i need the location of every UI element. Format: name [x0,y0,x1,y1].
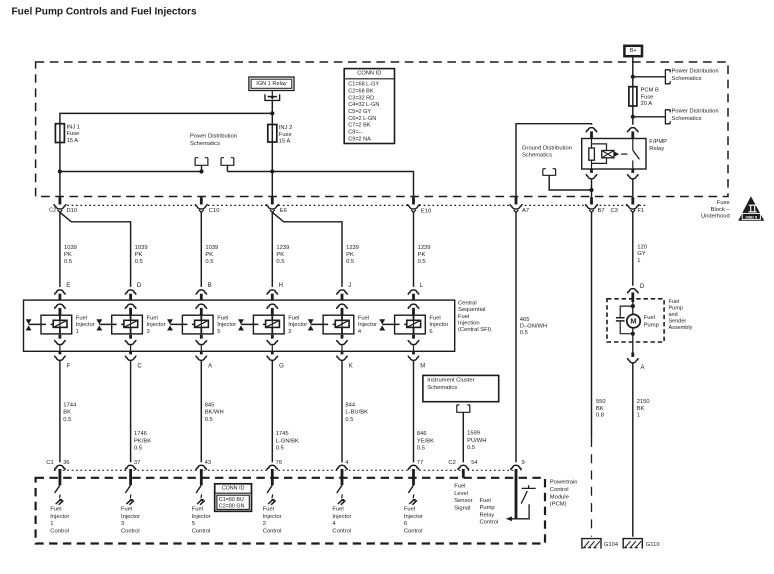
svg-text:Ground Distribution: Ground Distribution [522,145,572,151]
svg-text:76: 76 [276,460,282,466]
svg-text:1039: 1039 [205,245,218,251]
svg-text:BK/WH: BK/WH [205,410,224,416]
connector arc inside SFI box col 2 [268,301,277,310]
svg-text:Fuel: Fuel [192,507,203,513]
svg-text:Pump: Pump [644,322,659,328]
relay coil [591,139,593,170]
svg-text:Injector: Injector [358,322,377,328]
off-page bracket power distribution (lower) [665,110,670,124]
svg-text:Sensor: Sensor [454,498,472,504]
wire C10 down [200,212,202,291]
RFI capacitor branch [620,306,633,334]
svg-text:Fuel: Fuel [263,507,274,513]
injector 6 inlet line [382,323,407,325]
svg-text:Schematics: Schematics [190,141,220,147]
junction [270,111,274,115]
svg-text:A: A [208,363,212,369]
svg-text:1039: 1039 [64,245,77,251]
svg-text:Pump: Pump [669,306,683,312]
svg-text:Injector: Injector [121,514,140,520]
svg-text:L-GN/BK: L-GN/BK [276,438,299,444]
connector arc above injector 3 [126,287,135,296]
svg-text:Fuel: Fuel [480,498,491,504]
connector arc under SFI box col 6 [412,351,415,356]
capacitor plates [616,318,625,321]
wire F1 down to fuel pump [632,212,634,290]
svg-text:37: 37 [134,460,140,466]
node D10 connector [54,201,65,212]
svg-text:1039: 1039 [135,245,148,251]
wire bus left segment [60,171,202,173]
svg-text:0.5: 0.5 [205,259,213,265]
junction [631,75,635,79]
relay switch [632,139,634,151]
svg-text:A7: A7 [522,208,529,214]
svg-text:GY: GY [637,251,646,257]
svg-text:PK: PK [205,252,213,258]
wire A7 down to PCM pin 9 [515,212,517,464]
svg-text:6: 6 [404,521,407,527]
svg-text:F: F [67,363,71,369]
svg-text:1: 1 [50,521,53,527]
svg-text:0.5: 0.5 [276,259,284,265]
node E6 connector [267,201,278,212]
connector arc below injector 1 [59,335,62,341]
svg-text:PK: PK [418,252,426,258]
svg-text:Injector: Injector [429,322,448,328]
svg-text:Schematics: Schematics [427,385,457,391]
CONN ID table (PCM) [215,484,252,512]
svg-text:5: 5 [217,329,220,335]
svg-text:Level: Level [454,491,468,497]
svg-text:C5=2 GY: C5=2 GY [348,109,371,115]
wire injector 1 control down [59,361,61,465]
injector 3 nozzle bowtie [97,320,102,330]
svg-text:F1: F1 [638,208,645,214]
wire IGN1 feed down [271,100,273,142]
PCM connector dotted line [54,469,521,471]
motor M fuel pump [632,327,634,342]
svg-text:(Central SFI): (Central SFI) [458,327,491,333]
svg-text:0.5: 0.5 [63,417,71,423]
connector arc under SFI box col 4 [341,351,344,356]
node B+ [624,46,642,56]
svg-text:Injector: Injector [288,322,307,328]
svg-text:B: B [208,283,212,289]
wire injector 5 control down [200,361,202,465]
fuel injector 5 [182,315,213,334]
wire 550 BK dashed to G104 [591,438,593,537]
svg-text:OBD II: OBD II [745,214,757,219]
wire stub up to power distribution bracket A [201,165,203,171]
svg-text:Injector: Injector [147,322,166,328]
off-page bracket instrument cluster [457,405,470,412]
svg-text:0.5: 0.5 [276,446,284,452]
svg-text:1599: 1599 [467,431,480,437]
svg-text:B7: B7 [598,208,605,214]
connector arc fuel pump A [632,342,634,353]
svg-text:Injector: Injector [76,322,95,328]
CONN ID table (fuse block) [344,69,394,144]
svg-text:Control: Control [550,487,569,493]
svg-text:5: 5 [192,521,195,527]
svg-text:Module: Module [550,494,569,500]
svg-text:Sequential: Sequential [458,307,485,313]
svg-text:0.5: 0.5 [520,330,528,336]
svg-text:Powertrain: Powertrain [550,480,578,486]
injector 2 driver [267,485,272,493]
svg-text:2: 2 [263,521,266,527]
svg-text:1: 1 [637,258,640,264]
junction [199,169,203,173]
wire into pump [632,302,634,315]
wire stub to power distribution (upper) [633,76,665,78]
svg-text:C10: C10 [209,208,220,214]
fuel injector 4 [323,315,354,334]
svg-text:C7=2 BK: C7=2 BK [348,123,370,129]
wire top bus to INJ1 [60,113,272,142]
svg-text:550: 550 [596,399,606,405]
connector arc above injector 6 [409,287,418,296]
svg-text:Control: Control [192,529,211,535]
svg-text:PK: PK [135,252,143,258]
connector arc inside SFI box col 4 [337,301,346,310]
svg-text:C1: C1 [46,460,53,466]
junction [589,188,593,192]
node E10 connector [408,201,419,212]
wire A7 riser loop [516,124,592,198]
svg-text:Injector: Injector [50,514,69,520]
svg-text:1745: 1745 [276,431,289,437]
svg-text:0.5: 0.5 [134,446,142,452]
relay bottom pins [590,169,593,175]
injector 4 nozzle bowtie [308,320,313,330]
injector 3 inlet line [99,323,124,325]
svg-text:20 A: 20 A [641,101,653,107]
connector arc below injector 4 [341,335,344,341]
wire relay switch out to F1 [632,180,634,198]
injector 1 inlet line [29,323,54,325]
svg-text:465: 465 [520,317,530,323]
junction [270,169,274,173]
svg-text:1: 1 [637,413,640,419]
svg-text:PU/WH: PU/WH [467,438,486,444]
OBD II warning triangle [738,196,764,220]
relay coil link bracket [592,144,607,164]
svg-text:0.5: 0.5 [417,446,425,452]
wire stub to power distribution (lower) [633,116,665,118]
connector arc relay left pin top [587,125,596,134]
fuel injector 6 [395,315,426,334]
fuel injector 3 [112,315,143,334]
connector arc above injector 1 [55,287,64,296]
injector 5 driver [196,485,201,493]
svg-text:Schematics: Schematics [672,116,702,122]
svg-text:120: 120 [637,244,647,250]
connector arc above injector 5 [197,287,206,296]
instrument cluster schematics box [423,375,499,401]
connector arc above injector 2 [268,287,277,296]
wire INJ2 fuse down to connector E6 [271,142,273,198]
svg-text:INJ 2: INJ 2 [279,125,293,131]
svg-text:Injector: Injector [332,514,351,520]
svg-text:IGN 1 Relay: IGN 1 Relay [256,81,287,87]
injector 6 nozzle bowtie [380,320,385,330]
svg-text:Fuel: Fuel [147,315,158,321]
svg-text:0.5: 0.5 [64,259,72,265]
svg-text:Fuse: Fuse [717,200,730,206]
svg-text:Fuel: Fuel [669,299,680,305]
svg-text:C2=80 GN: C2=80 GN [219,504,245,510]
wire injector 3 control down [130,361,132,465]
svg-text:3: 3 [121,521,124,527]
svg-text:C8=--: C8=-- [348,130,362,136]
svg-text:BK: BK [596,406,604,412]
node B7 connector [586,201,597,212]
fuel pump relay driver switch [522,485,536,488]
wire E6 branch to injector 4 column [272,212,342,291]
svg-text:PK/BK: PK/BK [134,438,151,444]
wire injector 4 control down [341,361,343,465]
injector 2 inlet line [241,323,266,325]
svg-text:PK: PK [346,252,354,258]
svg-text:C1=80 BU: C1=80 BU [219,497,244,503]
junction [631,332,635,336]
connector arc above injector 4 [337,287,346,296]
injector 1 nozzle bowtie [26,320,31,330]
wire stub down from bracket B [226,165,228,171]
fuel injector 2 [253,315,284,334]
connector arc below injector 2 [271,335,274,341]
svg-text:F/PMP: F/PMP [649,139,667,145]
svg-text:Fuel: Fuel [288,315,299,321]
ground G104 [581,539,602,549]
junction [58,169,62,173]
svg-text:D10: D10 [67,208,78,214]
svg-text:E10: E10 [421,209,431,215]
svg-text:0.5: 0.5 [346,259,354,265]
injector 5 nozzle bowtie [167,320,172,330]
node C10 connector [196,201,207,212]
svg-text:C2: C2 [49,208,56,214]
wire B+ down to junction [632,56,634,127]
svg-text:1746: 1746 [134,431,147,437]
fuel injector 1 [41,315,72,334]
relay F/PMP box [582,139,646,170]
svg-text:Injector: Injector [192,514,211,520]
bus bar feed from IGN 1 relay [265,94,280,100]
svg-text:Control: Control [263,529,282,535]
connector arc under SFI box col 2 [271,351,274,356]
wire 2150 BK to G110 [632,363,634,536]
injector 6 driver [408,485,413,493]
connector arc under SFI box col 5 [200,351,203,356]
svg-text:and: and [669,312,678,318]
svg-text:INJ 1: INJ 1 [67,124,81,130]
fuse block connector dotted line [54,204,648,206]
svg-text:6: 6 [429,329,432,335]
svg-text:G104: G104 [604,542,619,548]
svg-text:PK: PK [276,252,284,258]
svg-text:54: 54 [471,460,478,466]
svg-text:YE/BK: YE/BK [417,438,434,444]
svg-text:Injector: Injector [217,322,236,328]
junction [631,304,635,308]
off-page bracket ground distribution [543,169,556,176]
svg-text:G110: G110 [646,542,660,548]
svg-text:Schematics: Schematics [522,153,552,159]
PCM dashed boundary [36,478,545,544]
svg-text:Fuse: Fuse [279,132,292,138]
svg-text:BK: BK [63,410,71,416]
svg-text:C2=68 BK: C2=68 BK [348,88,374,94]
svg-text:2150: 2150 [637,399,650,405]
svg-text:Signal: Signal [454,505,470,511]
svg-text:Fuse: Fuse [641,94,654,100]
svg-text:0.5: 0.5 [345,417,353,423]
svg-text:Relay: Relay [649,146,664,152]
svg-text:3: 3 [147,329,150,335]
off-page bracket power distribution (upper) [665,70,670,84]
svg-text:Fuel: Fuel [458,314,469,320]
svg-text:Fuel: Fuel [358,315,369,321]
wire injector 2 control down [271,361,273,465]
svg-text:M: M [630,316,636,325]
svg-text:Fuse: Fuse [67,131,80,137]
svg-text:Control: Control [332,529,351,535]
svg-text:CONN ID: CONN ID [357,70,381,76]
off-page bracket power distribution A [195,158,208,166]
svg-text:G: G [279,363,284,369]
svg-text:9: 9 [522,460,525,466]
connector arc under SFI box col 3 [129,351,132,356]
svg-text:15 A: 15 A [67,138,79,144]
injector 5 inlet line [170,323,195,325]
wire B7 down (solid part) [591,212,593,438]
svg-text:BK: BK [637,406,645,412]
svg-text:Fuel: Fuel [332,507,343,513]
wire INJ1 fuse down to connector D10 [59,143,61,199]
svg-text:1: 1 [76,329,79,335]
svg-text:C1=68 L-GY: C1=68 L-GY [348,82,379,88]
svg-text:Fuel: Fuel [429,315,440,321]
injector 1 driver [55,485,60,493]
svg-text:Block –: Block – [711,207,731,213]
svg-text:B+: B+ [630,48,637,54]
svg-text:Central: Central [458,300,477,306]
svg-text:846: 846 [417,431,427,437]
svg-text:Control: Control [121,529,140,535]
svg-text:Fuel Pump Controls and Fuel In: Fuel Pump Controls and Fuel Injectors [12,6,197,17]
svg-text:Fuel: Fuel [76,315,87,321]
node A7 connector [510,201,521,212]
svg-text:Injection: Injection [458,321,480,327]
svg-text:1744: 1744 [63,402,77,408]
junction [631,115,635,119]
connector arc below injector 3 [129,335,132,341]
connector arc relay right pin top [628,125,637,134]
connector arc inside SFI box col 1 [55,301,64,310]
wire injector 6 control down [413,361,415,465]
relay armature box [602,151,614,158]
fuse PCM B 20A [629,87,637,106]
svg-text:Fuel: Fuel [50,507,61,513]
svg-text:Power Distribution: Power Distribution [672,69,719,75]
svg-text:0.5: 0.5 [467,445,475,451]
svg-text:J: J [348,283,351,289]
fuel pump and sender dashed box [607,299,664,342]
connector arc under SFI box col 1 [59,351,62,356]
svg-text:Assembly: Assembly [669,325,693,331]
svg-text:Underhood: Underhood [701,214,730,220]
connector arc below injector 6 [412,335,415,341]
fuse INJ 1 15A [55,124,64,143]
svg-text:C4=32 L-GN: C4=32 L-GN [348,102,379,108]
node F1 connector [627,201,638,212]
svg-text:H: H [279,283,283,289]
svg-text:Pump: Pump [480,505,495,511]
relay linkage dashed [621,153,628,155]
svg-text:K: K [349,363,353,369]
connector arc inside SFI box col 5 [197,301,206,310]
svg-text:C2: C2 [448,460,455,466]
off-page bracket power distribution B [221,158,234,166]
wire 1599 down to pin 54 [462,412,464,465]
svg-text:Sender: Sender [669,319,687,325]
wire E10 down [413,212,415,291]
injector 4 driver [337,485,342,493]
central SFI box [24,300,455,351]
svg-text:Injector: Injector [263,514,282,520]
ground G110 [622,539,643,549]
svg-text:Control: Control [480,520,499,526]
fuse INJ 2 15A [268,125,277,143]
connector arc fuel pump D [628,286,637,295]
svg-text:CONN ID: CONN ID [222,485,245,491]
connector arc inside SFI box col 6 [409,301,418,310]
svg-text:Injector: Injector [404,514,423,520]
svg-text:0.5: 0.5 [205,417,213,423]
svg-text:0.5: 0.5 [135,259,143,265]
wire ground distribution stub to B7 [549,175,591,190]
svg-text:Power Distribution: Power Distribution [190,134,237,140]
svg-text:Fuel: Fuel [644,315,655,321]
svg-text:(PCM): (PCM) [550,502,567,508]
svg-text:E: E [66,283,70,289]
svg-text:M: M [420,363,425,369]
connector arc inside SFI box col 3 [126,301,135,310]
svg-text:Schematics: Schematics [672,76,702,82]
svg-text:Fuel: Fuel [454,484,465,490]
svg-text:PK: PK [64,252,72,258]
svg-text:L-BU/BK: L-BU/BK [345,410,368,416]
injector 4 inlet line [311,323,336,325]
svg-text:PCM B: PCM B [641,88,659,94]
svg-text:C3=32 RD: C3=32 RD [348,95,374,101]
svg-text:1239: 1239 [276,245,289,251]
svg-text:Control: Control [50,529,69,535]
svg-text:Instrument Cluster: Instrument Cluster [427,378,474,384]
svg-text:77: 77 [417,460,423,466]
svg-text:43: 43 [205,460,211,466]
svg-text:Relay: Relay [480,512,495,518]
svg-text:2: 2 [288,329,291,335]
wire D10 branch to injector 3 column [60,212,131,291]
svg-text:Power Distribution: Power Distribution [672,109,719,115]
svg-text:Fuel: Fuel [121,507,132,513]
svg-text:Fuel: Fuel [404,507,415,513]
svg-text:Fuel: Fuel [217,315,228,321]
